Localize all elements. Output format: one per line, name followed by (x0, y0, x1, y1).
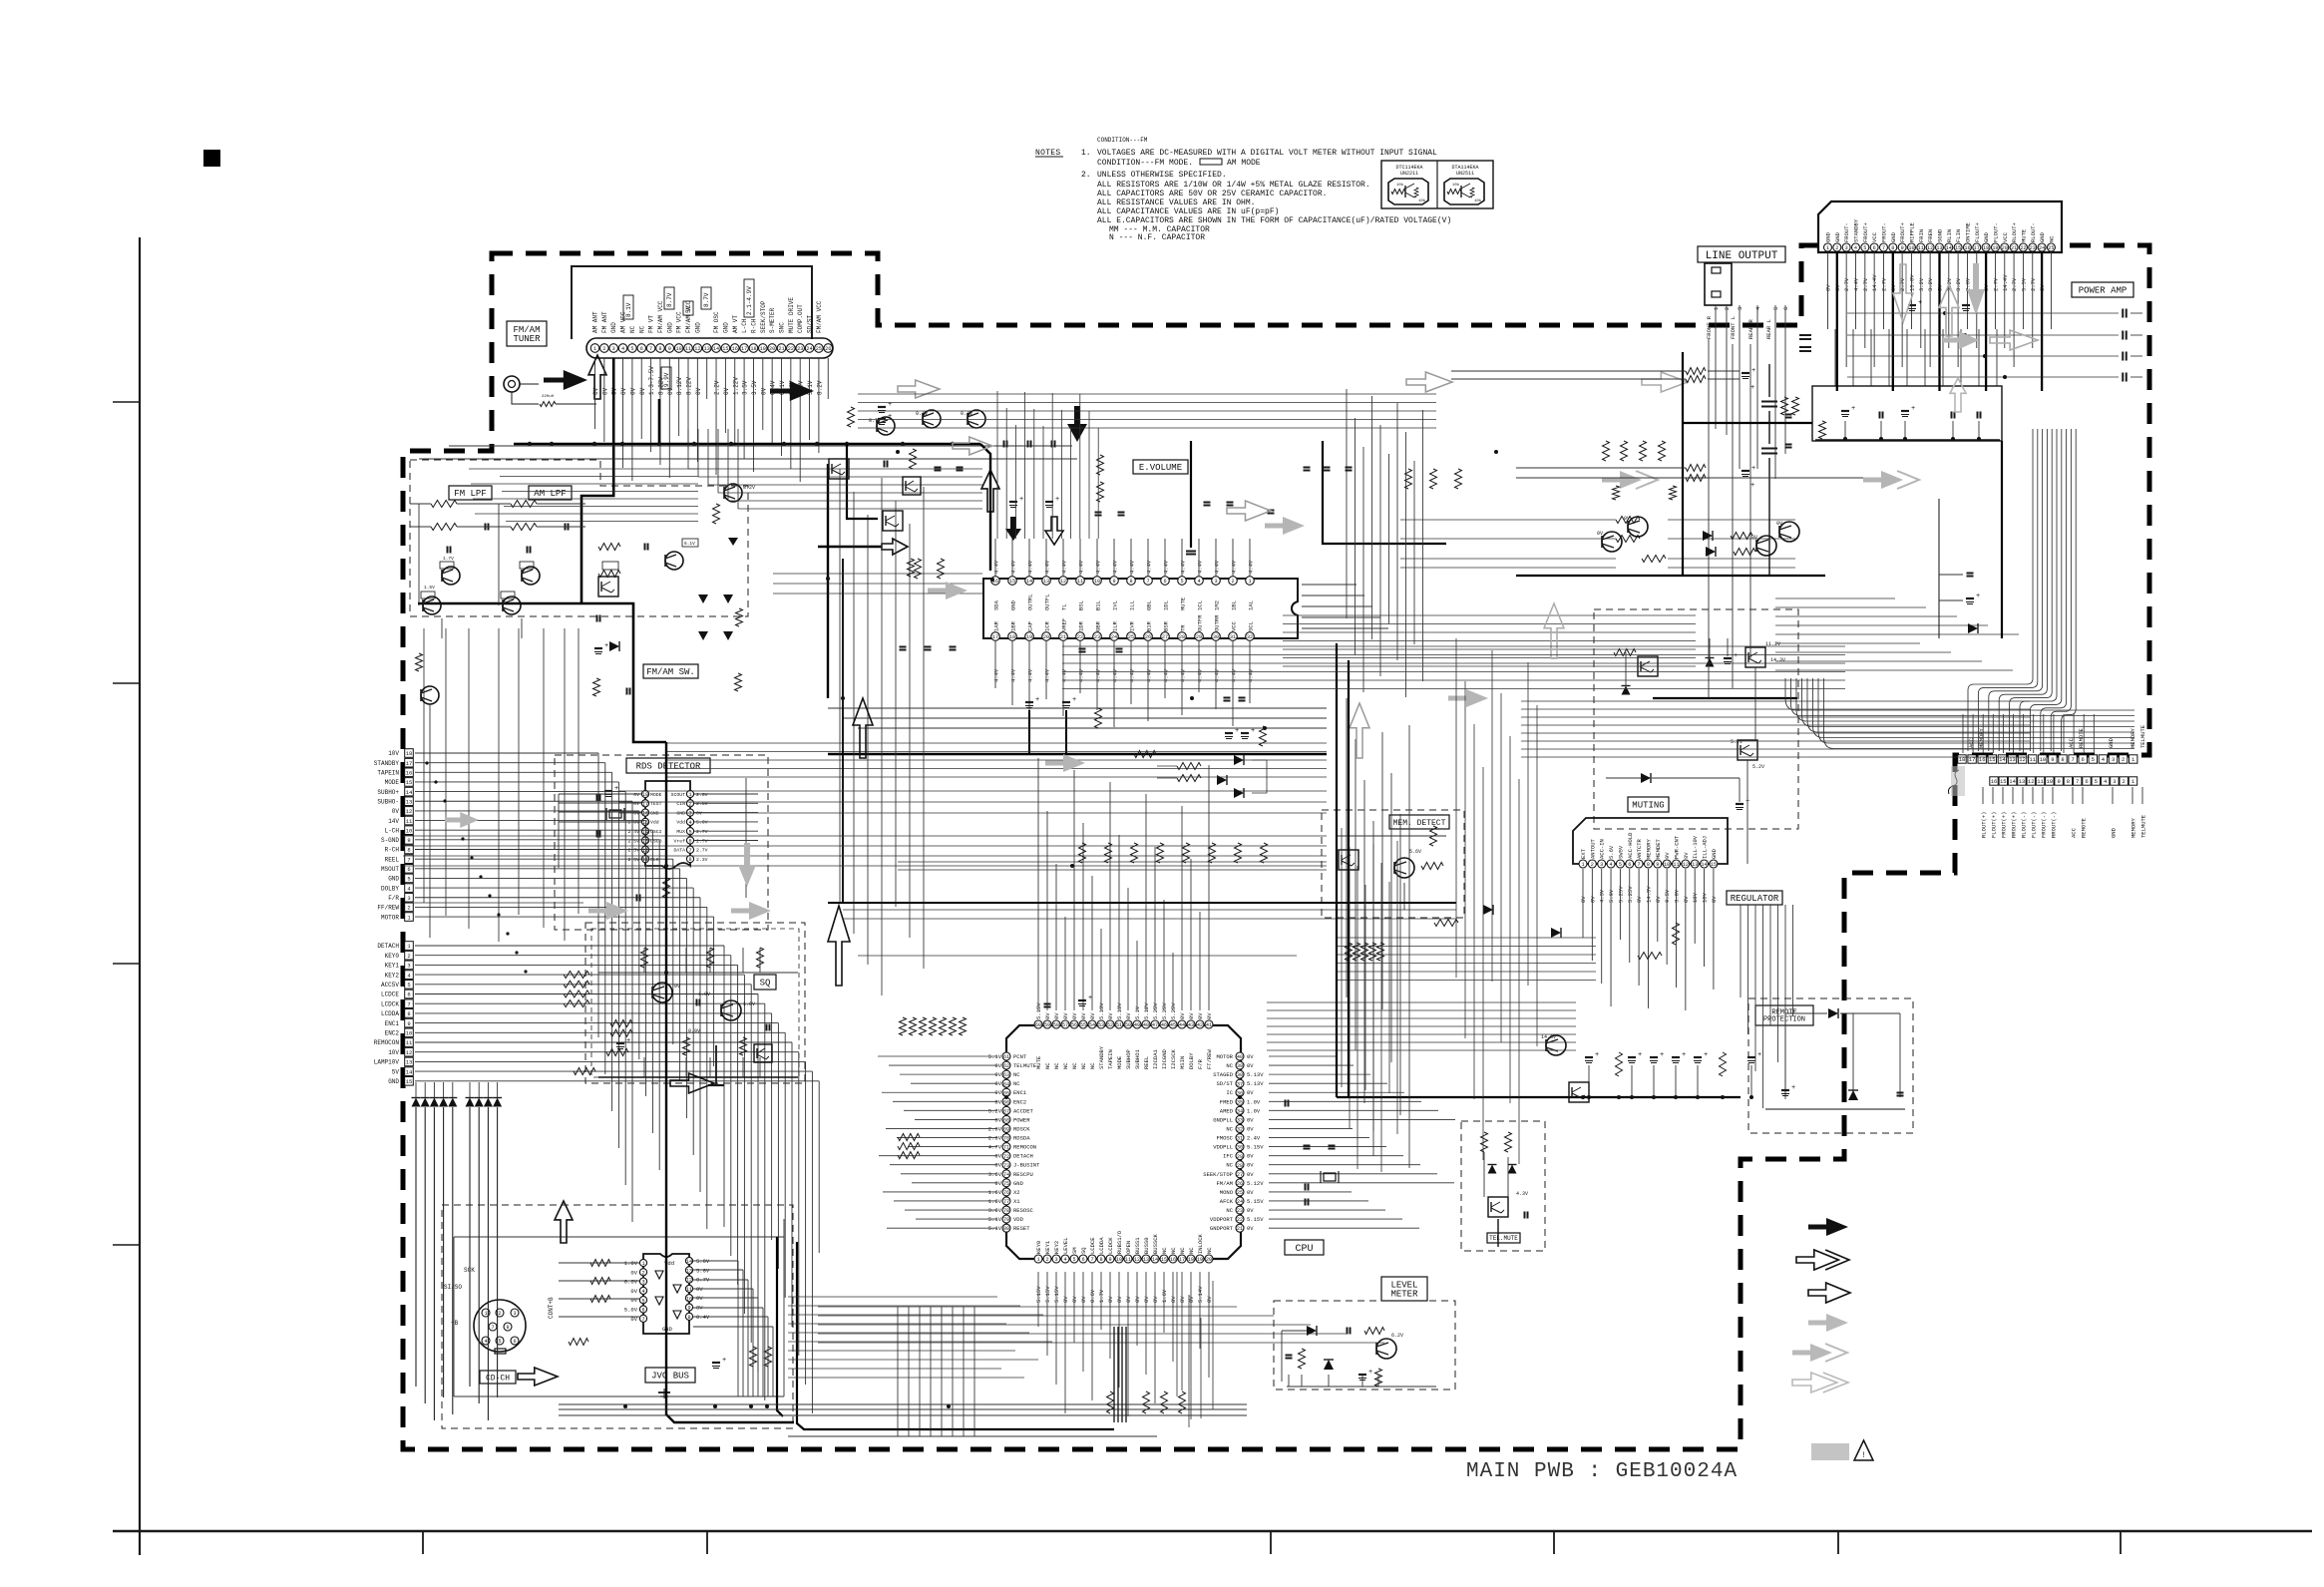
svg-text:20: 20 (769, 346, 775, 352)
svg-text:15: 15 (406, 1078, 413, 1085)
svg-text:+: + (1035, 696, 1039, 704)
svg-text:5.5V: 5.5V (2020, 277, 2027, 291)
svg-text:2: 2 (2122, 756, 2125, 763)
muting IC pin 14 (1701, 860, 1709, 868)
CPU pin 7 (1088, 1255, 1096, 1263)
svg-text:ACC5V: ACC5V (381, 982, 399, 989)
CPU pin 71 (1002, 1143, 1010, 1151)
speaker out caps (1847, 312, 2119, 314)
frame tick left 4 (113, 1244, 140, 1246)
CPU pin 4 (1061, 1255, 1069, 1263)
svg-text:5.15V: 5.15V (1247, 1144, 1264, 1151)
bus IC pin R6 (685, 1304, 692, 1311)
svg-text:0V: 0V (1247, 1053, 1254, 1060)
label TEL.MUTE (1487, 1233, 1520, 1243)
svg-text:10: 10 (1094, 579, 1100, 585)
svg-text:ANTOUT: ANTOUT (1589, 838, 1596, 859)
svg-text:1M2: 1M2 (1214, 600, 1221, 610)
CPU pin 24 (1236, 1197, 1244, 1205)
tuner pin 3 (609, 344, 618, 353)
svg-text:29: 29 (1237, 1154, 1243, 1160)
svg-text:ALL RESISTANCE VALUES ARE IN O: ALL RESISTANCE VALUES ARE IN OHM. (1097, 198, 1255, 207)
svg-text:NC: NC (1044, 1062, 1051, 1069)
label REGULATOR (1727, 891, 1782, 905)
svg-text:5: 5 (407, 982, 410, 989)
svg-text:5.25V: 5.25V (1161, 1002, 1168, 1019)
label LEVEL METER (1381, 1277, 1427, 1301)
svg-text:10: 10 (686, 1296, 692, 1302)
tuner pin 15 (721, 344, 730, 353)
svg-text:68: 68 (1003, 1118, 1009, 1124)
E.VOLUME pin 6 (1161, 577, 1170, 586)
svg-text:+: + (626, 1037, 630, 1045)
tuner pin 11 (684, 344, 693, 353)
svg-text:5: 5 (2095, 778, 2098, 785)
svg-text:GBR: GBR (1095, 620, 1102, 631)
svg-text:5.25V: 5.25V (1627, 886, 1634, 903)
svg-text:+: + (1595, 1051, 1599, 1059)
CPU pin 68 (1002, 1115, 1010, 1123)
bus IC pin L6 (639, 1306, 646, 1313)
main board dashed outline (403, 245, 2149, 1449)
RDS IC pin L5 (641, 828, 648, 835)
svg-text:1: 1 (593, 346, 596, 352)
svg-text:21: 21 (1060, 634, 1066, 640)
svg-text:37: 37 (1237, 1081, 1243, 1087)
svg-text:3: 3 (513, 1311, 516, 1317)
svg-text:2: 2 (602, 346, 605, 352)
svg-text:GND: GND (388, 1078, 399, 1085)
svg-text:47: 47 (1152, 1022, 1158, 1028)
svg-text:NC: NC (1013, 1080, 1020, 1087)
power amp pin 9 (1898, 243, 1906, 251)
SQ res 1 (641, 948, 648, 968)
mesh center horizontals B (843, 909, 1456, 911)
svg-text:MEMDET: MEMDET (1655, 838, 1662, 859)
svg-text:40: 40 (1237, 1054, 1243, 1060)
svg-text:5.0V: 5.0V (696, 820, 708, 826)
svg-text:DOLBY: DOLBY (381, 885, 399, 892)
E.VOLUME pin 22 (1076, 632, 1085, 641)
EV diode on bus (1217, 775, 1227, 785)
svg-text:ALL E.CAPACITORS ARE SHOWN IN: ALL E.CAPACITORS ARE SHOWN IN THE FORM O… (1097, 216, 1451, 225)
svg-text:8: 8 (688, 857, 691, 863)
CPU pin 69 (1002, 1124, 1010, 1132)
rails to filter (1451, 370, 1686, 372)
RDS IC pin L3 (641, 809, 648, 816)
svg-text:3.5V: 3.5V (742, 380, 749, 395)
svg-text:0V: 0V (1247, 1125, 1254, 1132)
level meter diode (1307, 1326, 1317, 1336)
svg-text:+: + (1918, 299, 1922, 307)
svg-text:R-CH: R-CH (385, 847, 400, 854)
svg-text:1: 1 (688, 792, 691, 798)
svg-text:9: 9 (1112, 579, 1115, 585)
svg-text:17: 17 (992, 634, 998, 640)
AM LPF transistor Q2 (503, 596, 521, 614)
svg-text:ALL CAPACITORS ARE 50V OR 25V: ALL CAPACITORS ARE 50V OR 25V CERAMIC CA… (1097, 190, 1327, 198)
svg-text:1.0V: 1.0V (698, 992, 710, 997)
svg-text:17: 17 (741, 346, 747, 352)
FM LPF transistor Q1 (442, 567, 460, 585)
SQ ecap (616, 1042, 624, 1044)
svg-text:27: 27 (1162, 634, 1168, 640)
muting IC pin 9 (1654, 860, 1662, 868)
RDS IC pin L2 (641, 800, 648, 807)
svg-text:13: 13 (704, 346, 710, 352)
svg-text:8.1V: 8.1V (625, 302, 632, 317)
svg-text:UNLESS OTHERWISE SPECIFIED.: UNLESS OTHERWISE SPECIFIED. (1097, 171, 1227, 180)
svg-text:COMP.OUT: COMP.OUT (797, 304, 804, 333)
svg-text:16: 16 (1170, 1257, 1176, 1263)
svg-text:4.4V: 4.4V (1852, 277, 1859, 291)
tuner pin 22 (787, 344, 796, 353)
svg-text:23: 23 (2030, 245, 2036, 251)
svg-text:GND: GND (610, 322, 617, 333)
svg-text:4.3V: 4.3V (1516, 1191, 1528, 1197)
svg-text:71: 71 (1003, 1145, 1009, 1151)
svg-text:2.7V: 2.7V (2011, 277, 2018, 291)
label FM/AM TUNER (507, 321, 547, 346)
svg-text:12: 12 (406, 808, 413, 815)
svg-text:41: 41 (1206, 1022, 1212, 1028)
bus IC pin R5 (685, 1295, 692, 1302)
svg-text:BUSS0: BUSS0 (1143, 1237, 1150, 1254)
svg-text:Vdd: Vdd (650, 820, 659, 826)
svg-text:7: 7 (491, 1325, 494, 1331)
svg-text:RDSDA: RDSDA (1013, 1135, 1030, 1142)
svg-text:1: 1 (641, 1261, 644, 1267)
power amp filter box (1812, 386, 2002, 441)
E.VOLUME pin 12 (1059, 577, 1068, 586)
EV res above (1097, 455, 1104, 475)
bottom rails thin (559, 1403, 1247, 1405)
CPU pin 11 (1124, 1255, 1132, 1263)
svg-text:MAIN PWB : GEB10024A: MAIN PWB : GEB10024A (1466, 1460, 1738, 1483)
svg-text:0V: 0V (1188, 1012, 1195, 1019)
svg-text:11: 11 (1673, 862, 1679, 868)
svg-text:3.2V: 3.2V (1918, 277, 1925, 291)
svg-text:5.25V: 5.25V (1152, 1002, 1159, 1019)
legend arrow double hollow gray (1792, 1373, 1837, 1392)
svg-text:ILL-ADJ: ILL-ADJ (1702, 836, 1709, 859)
svg-text:8: 8 (1099, 1257, 1102, 1263)
svg-text:TAPEIN: TAPEIN (377, 770, 399, 777)
svg-text:4: 4 (484, 1339, 487, 1345)
bus IC pin L3 (639, 1278, 646, 1285)
JVC res right (750, 1347, 757, 1367)
muting IC pin 6 (1626, 860, 1634, 868)
CPU pin 1 (1034, 1255, 1042, 1263)
label JVC BUS (645, 1368, 695, 1383)
level meter cap2 (1286, 1355, 1293, 1357)
svg-text:11: 11 (1125, 1257, 1131, 1263)
AM LPF resistor 2 (511, 524, 537, 531)
TEL mute dashed box (1461, 1121, 1545, 1251)
muting driver diode (1622, 686, 1631, 695)
svg-text:0V: 0V (1053, 1012, 1060, 1019)
muting driver diode 2 (1641, 773, 1651, 783)
muting IC pin 3 (1598, 860, 1606, 868)
svg-text:46: 46 (1161, 1022, 1167, 1028)
hollow arrow up JVC (555, 1201, 573, 1243)
CPU pin 74 (1002, 1170, 1010, 1178)
svg-text:8: 8 (1647, 862, 1650, 868)
svg-text:7: 7 (2071, 756, 2074, 763)
svg-text:PCNT: PCNT (1013, 1053, 1027, 1060)
svg-text:6: 6 (407, 992, 410, 998)
assorted components fill A (935, 467, 942, 469)
svg-text:43: 43 (1188, 1022, 1194, 1028)
svg-text:4: 4 (621, 346, 624, 352)
right mid caps (1967, 573, 1974, 575)
black down arrow top mid (1067, 406, 1087, 442)
CPU pin 36 (1236, 1088, 1244, 1096)
svg-text:L-CH: L-CH (741, 318, 748, 333)
svg-text:8: 8 (506, 1325, 509, 1331)
power amp pin 8 (1889, 243, 1897, 251)
svg-text:VCC: VCC (1871, 231, 1878, 242)
svg-text:2.7V: 2.7V (696, 838, 708, 844)
svg-text:1CR: 1CR (1044, 620, 1051, 631)
svg-text:8V: 8V (1683, 852, 1690, 859)
svg-text:NC: NC (638, 325, 645, 333)
svg-text:PROTECTION: PROTECTION (1763, 1016, 1805, 1024)
bus evol to right (1283, 614, 1696, 616)
AM LPF cap 1 (565, 524, 567, 531)
svg-text:MODE: MODE (385, 779, 400, 786)
svg-text:OPEN: OPEN (1125, 1241, 1132, 1254)
center resistor row (1079, 843, 1086, 863)
CPU pin 63 (1002, 1070, 1010, 1078)
bus IC pin R1 (685, 1257, 692, 1264)
svg-text:J-BUSINT: J-BUSINT (1013, 1162, 1040, 1169)
svg-text:4.4V: 4.4V (993, 560, 1000, 574)
microcontroller CPU body (1006, 1025, 1241, 1259)
svg-text:FREN: FREN (1927, 229, 1934, 242)
svg-text:0V: 0V (1624, 516, 1630, 522)
wire bold lpf bus (418, 603, 666, 742)
bus cpu-right to muting (1267, 1001, 1576, 1003)
svg-text:18: 18 (1009, 634, 1015, 640)
CPU pin 26 (1236, 1179, 1244, 1187)
svg-text:IFC: IFC (1223, 1153, 1234, 1160)
power amp pin 20 (2001, 243, 2009, 251)
CPU left resistors (898, 1134, 920, 1141)
svg-text:19: 19 (760, 346, 766, 352)
CPU pin 76 (1002, 1188, 1010, 1196)
svg-text:5.2V: 5.2V (1752, 764, 1764, 770)
muting res in row (1616, 1052, 1623, 1076)
svg-text:F/R: F/R (1197, 1058, 1204, 1069)
svg-text:1LL: 1LL (1129, 600, 1136, 610)
svg-text:1DL: 1DL (1163, 600, 1170, 610)
antenna coil (520, 383, 539, 385)
RDS res (663, 878, 670, 898)
svg-text:GND: GND (2111, 827, 2118, 838)
E.VOLUME pin 5 (1178, 577, 1187, 586)
mesh bottom verticals (1176, 1272, 1178, 1396)
bus IC pin L4 (639, 1287, 646, 1294)
svg-text:LCDCK: LCDCK (1107, 1237, 1114, 1254)
svg-text:13.0V: 13.0V (1908, 274, 1915, 291)
svg-text:NC: NC (1179, 1247, 1186, 1254)
svg-text:0V: 0V (1125, 1296, 1132, 1303)
svg-text:R-CH: R-CH (750, 318, 757, 333)
svg-text:1AL: 1AL (1248, 600, 1255, 610)
svg-text:26: 26 (1145, 634, 1151, 640)
svg-text:34: 34 (1237, 1108, 1243, 1114)
frame tick bottom 4 (1553, 1531, 1555, 1554)
RDS IC pin R6 (686, 837, 693, 844)
svg-text:BUSSCK: BUSSCK (1152, 1233, 1159, 1254)
RDS IC pin L1 (641, 790, 648, 797)
svg-text:5: 5 (688, 829, 691, 835)
svg-text:5.0V: 5.0V (696, 1258, 710, 1265)
svg-text:6: 6 (513, 1339, 516, 1345)
svg-text:MEMORY: MEMORY (1645, 838, 1652, 859)
EV bold feed 2 (818, 546, 882, 548)
res sw (593, 678, 600, 696)
bus IC inverter 1 (655, 1271, 663, 1279)
svg-text:FM/AM: FM/AM (1216, 1180, 1233, 1187)
RDS IC pin R5 (686, 828, 693, 835)
wire bundle center horizontals (666, 742, 1327, 744)
svg-text:VOLTAGES ARE DC-MEASURED WITH: VOLTAGES ARE DC-MEASURED WITH A DIGITAL … (1097, 149, 1437, 158)
svg-text:5.9V: 5.9V (1608, 889, 1615, 903)
svg-text:23: 23 (797, 346, 803, 352)
svg-text:8: 8 (658, 346, 661, 352)
svg-text:FT/REW: FT/REW (1206, 1048, 1213, 1069)
label REMOTE PROTECTION (1755, 1005, 1813, 1025)
CPU pin 37 (1236, 1079, 1244, 1087)
svg-text:TEL.MUTE: TEL.MUTE (1489, 1235, 1518, 1242)
RDS ecap (604, 790, 612, 792)
svg-text:0V: 0V (601, 387, 608, 395)
RDS crystal resonator (609, 810, 621, 818)
svg-text:+: + (1055, 496, 1059, 504)
svg-text:32: 32 (1237, 1127, 1243, 1133)
tuner input hollow arrow up (588, 355, 606, 399)
svg-text:19: 19 (1992, 245, 1998, 251)
E.VOLUME pin 16 (991, 577, 1000, 586)
svg-text:TAPEIN: TAPEIN (1107, 1049, 1114, 1069)
CPU pin 8 (1097, 1255, 1105, 1263)
bus IC inverter 4 (673, 1311, 681, 1319)
svg-text:9: 9 (2057, 778, 2060, 785)
svg-text:67: 67 (1003, 1108, 1009, 1114)
svg-text:5.0V: 5.0V (696, 1267, 710, 1274)
svg-text:4.4V: 4.4V (1027, 668, 1034, 682)
svg-text:10V: 10V (1692, 892, 1699, 903)
SQ transistor 2 (721, 1000, 741, 1020)
RDS IC pin L4 (641, 818, 648, 825)
transistor trio Q202 (923, 410, 941, 428)
svg-text:2.7V: 2.7V (1992, 277, 1999, 291)
svg-text:2.3V: 2.3V (696, 857, 708, 863)
CPU pin 16 (1169, 1255, 1177, 1263)
power amp pin 3 (1842, 243, 1850, 251)
svg-text:L-CH: L-CH (385, 827, 400, 834)
E.VOLUME pin 14 (1025, 577, 1034, 586)
svg-text:6: 6 (1163, 579, 1166, 585)
E.VOLUME pin 29 (1195, 632, 1204, 641)
svg-text:18: 18 (406, 750, 413, 757)
svg-text:69: 69 (1003, 1127, 1009, 1133)
svg-text:MOTOR: MOTOR (1216, 1053, 1233, 1060)
svg-text:RLOUT+: RLOUT+ (2011, 222, 2018, 242)
svg-text:0V: 0V (1107, 1296, 1114, 1303)
svg-text:7: 7 (641, 1317, 644, 1323)
svg-text:SCOUT: SCOUT (671, 792, 686, 798)
mesh above evolume verticals (996, 391, 998, 539)
svg-text:LCDCE: LCDCE (381, 992, 399, 998)
E.VOLUME pin 15 (1008, 577, 1017, 586)
svg-text:4.4V: 4.4V (1078, 560, 1085, 574)
res scatter top mid (848, 407, 855, 427)
svg-text:10: 10 (1664, 862, 1670, 868)
CPU pin 66 (1002, 1097, 1010, 1105)
svg-text:PWR-CNT: PWR-CNT (1674, 835, 1681, 859)
svg-text:REEL: REEL (385, 856, 400, 863)
CPU pin 29 (1236, 1152, 1244, 1160)
svg-text:GBL: GBL (1146, 600, 1153, 610)
svg-text:1.7V: 1.7V (443, 556, 454, 562)
SQ tr box (754, 1044, 772, 1062)
black hollow arrow right low (670, 1073, 714, 1093)
svg-text:NC: NC (1188, 1247, 1195, 1254)
svg-text:FM OSC: FM OSC (713, 311, 720, 333)
mesh center horizontals C (898, 861, 1327, 863)
svg-text:10k: 10k (1474, 198, 1482, 203)
CPU pin 14 (1151, 1255, 1159, 1263)
power amp pin 6 (1870, 243, 1878, 251)
svg-text:66: 66 (1003, 1099, 1009, 1105)
EV bold feed left (980, 444, 990, 571)
svg-text:12: 12 (686, 1278, 692, 1284)
CPU pin 48 (1142, 1020, 1150, 1028)
svg-text:14.4V: 14.4V (1871, 274, 1878, 291)
svg-text:13: 13 (1936, 245, 1942, 251)
bold path center (666, 742, 794, 1422)
connector FM/AM tuner body (572, 266, 812, 339)
svg-text:14: 14 (406, 1068, 413, 1075)
svg-text:I2CSCK: I2CSCK (1170, 1048, 1177, 1069)
bus upper mid horizontals (773, 573, 982, 575)
svg-text:REEL: REEL (1143, 1056, 1150, 1069)
svg-text:11: 11 (1918, 245, 1924, 251)
svg-text:POWER AMP: POWER AMP (2079, 286, 2128, 296)
svg-text:70: 70 (1003, 1136, 1009, 1142)
svg-text:14: 14 (1946, 245, 1952, 251)
svg-text:29: 29 (1196, 634, 1202, 640)
svg-text:7: 7 (1146, 579, 1149, 585)
EV caps below (1079, 648, 1086, 650)
tuner pin 26 (824, 344, 833, 353)
CPU pin 13 (1142, 1255, 1150, 1263)
muting IC pin 7 (1635, 860, 1643, 868)
svg-text:0V: 0V (674, 984, 680, 990)
svg-text:3.5V: 3.5V (751, 380, 758, 395)
svg-text:+: + (1757, 1051, 1761, 1059)
tuner pin 7 (646, 344, 655, 353)
svg-text:MUTING: MUTING (1632, 801, 1664, 811)
FM-AM LPF dashed box (410, 460, 748, 616)
FM LPF resistor 1 (431, 501, 457, 508)
power amp pin 12 (1926, 243, 1934, 251)
CPU pin 28 (1236, 1161, 1244, 1169)
RDS IC pin L6 (641, 837, 648, 844)
